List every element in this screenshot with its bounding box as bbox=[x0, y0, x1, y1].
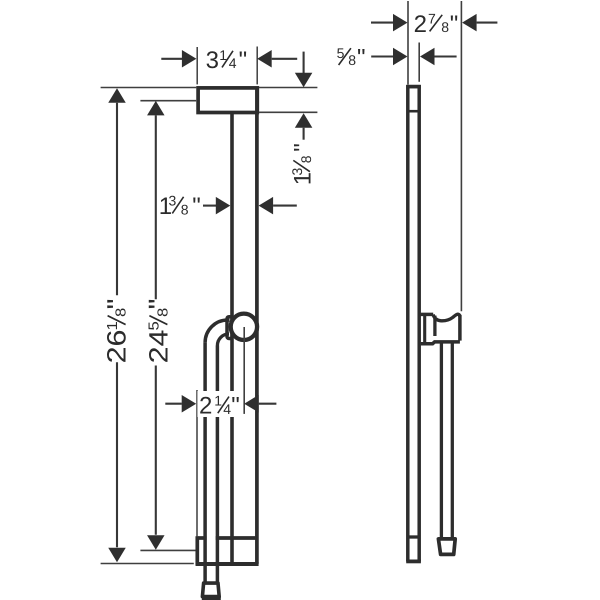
dim 1 3/8 horizontal (bar width) bbox=[203, 205, 216, 207]
bar left edge bbox=[230, 113, 234, 564]
handshower holder ring bbox=[231, 314, 257, 340]
svg-text:8: 8 bbox=[298, 155, 314, 163]
white mask under 2 1/4 label bbox=[197, 391, 241, 417]
label 5/8 inch bbox=[337, 44, 366, 71]
svg-text:2: 2 bbox=[199, 393, 212, 420]
svg-text:4: 4 bbox=[229, 55, 237, 71]
svg-text:": " bbox=[239, 47, 248, 74]
svg-text:8: 8 bbox=[181, 201, 189, 217]
svg-text:": " bbox=[450, 11, 459, 38]
hose left line bbox=[203, 343, 207, 582]
svg-text:": " bbox=[143, 299, 173, 310]
svg-text:": " bbox=[101, 299, 131, 310]
svg-text:": " bbox=[290, 143, 317, 152]
dim 5/8 bbox=[371, 55, 393, 57]
rail top cap bbox=[406, 85, 421, 89]
side hose left line bbox=[440, 343, 443, 537]
dim 3 1/4 arrow right bbox=[257, 50, 272, 68]
dim 3 1/4 tail left bbox=[161, 58, 182, 60]
ext line cap left bbox=[196, 47, 198, 84]
svg-text:": " bbox=[357, 44, 366, 71]
bottom ext line (24 5/8) bbox=[140, 549, 195, 551]
svg-text:1: 1 bbox=[105, 321, 121, 330]
rail left edge bbox=[406, 85, 410, 562]
front nozzle (hose end) bbox=[202, 583, 219, 597]
side hose right line bbox=[451, 343, 454, 537]
bar right edge bbox=[255, 87, 259, 564]
dim 1 3/8 vertical (cap height) upper segment bbox=[303, 52, 305, 73]
bottom bracket top edge (gap where hose passes) bbox=[196, 536, 207, 540]
dim 3 1/4 tail right bbox=[272, 58, 298, 60]
rail right edge bbox=[417, 85, 421, 562]
svg-text:3: 3 bbox=[169, 193, 177, 209]
label 24 5/8 inch (rotated) bbox=[143, 299, 173, 364]
side ext line rail rear bbox=[418, 43, 420, 82]
label 3 1/4 inch bbox=[206, 47, 248, 74]
dim 1 3/8 vertical lower segment bbox=[295, 113, 313, 128]
hose right line bbox=[216, 346, 220, 582]
svg-text:4: 4 bbox=[223, 401, 231, 417]
holder top edge bbox=[421, 313, 434, 317]
label 1 3/8 inch (bar width) bbox=[159, 193, 201, 221]
svg-text:2: 2 bbox=[414, 11, 427, 38]
top line at cap top bbox=[101, 87, 197, 89]
ext line cap right bbox=[256, 47, 258, 85]
center line from holder ring bbox=[243, 327, 245, 414]
rail bottom edge bbox=[406, 560, 421, 564]
rail divider upper bbox=[407, 110, 420, 113]
label 1 3/8 inch (rotated, cap height) bbox=[289, 143, 317, 185]
dim 2 1/4 bbox=[165, 403, 182, 405]
side ext line left (rail front) bbox=[407, 1, 409, 85]
label 2 7/8 inch bbox=[414, 10, 459, 37]
ext line bracket left (2 1/4) bbox=[196, 390, 198, 537]
svg-text:3: 3 bbox=[206, 47, 219, 74]
dim 24 5/8 line bbox=[147, 101, 165, 116]
line at cap bottom right bbox=[259, 111, 317, 113]
hose outer curve bbox=[205, 320, 229, 343]
holder clamp strip bbox=[423, 315, 426, 342]
side ext line right (holder outer) bbox=[460, 1, 462, 311]
dim 2 7/8 bbox=[371, 22, 393, 24]
holder right edge bbox=[458, 315, 462, 341]
side nozzle (hose end) bbox=[438, 539, 455, 555]
bottom ext line (26 1/8) bbox=[101, 563, 194, 565]
svg-text:1: 1 bbox=[214, 393, 222, 409]
slider clamp bbox=[227, 317, 232, 339]
label 2 1/4 inch bbox=[199, 393, 240, 420]
dim 3 1/4 arrow left bbox=[182, 50, 197, 68]
bottom bracket left edge bbox=[195, 536, 199, 565]
svg-text:24: 24 bbox=[143, 329, 173, 363]
hose inner curve bbox=[217, 334, 229, 346]
line at cap mid (24 5/8 top ref) bbox=[140, 100, 196, 102]
dim 26 1/8 line bbox=[108, 88, 126, 103]
wall bar top cap bbox=[198, 88, 257, 113]
bottom bracket bottom edge bbox=[196, 562, 259, 566]
holder bottom edge bbox=[421, 342, 460, 344]
svg-text:26: 26 bbox=[102, 329, 132, 363]
holder saddle bbox=[433, 314, 460, 321]
svg-text:8: 8 bbox=[441, 19, 449, 35]
svg-text:3: 3 bbox=[289, 168, 305, 176]
svg-text:": " bbox=[231, 393, 240, 420]
svg-text:5: 5 bbox=[147, 321, 163, 330]
svg-text:": " bbox=[192, 193, 201, 220]
label 26 1/8 inch (rotated) bbox=[101, 299, 131, 364]
svg-text:8: 8 bbox=[348, 52, 356, 68]
holder arm drop bbox=[433, 316, 436, 336]
rail divider lower bbox=[407, 535, 420, 538]
